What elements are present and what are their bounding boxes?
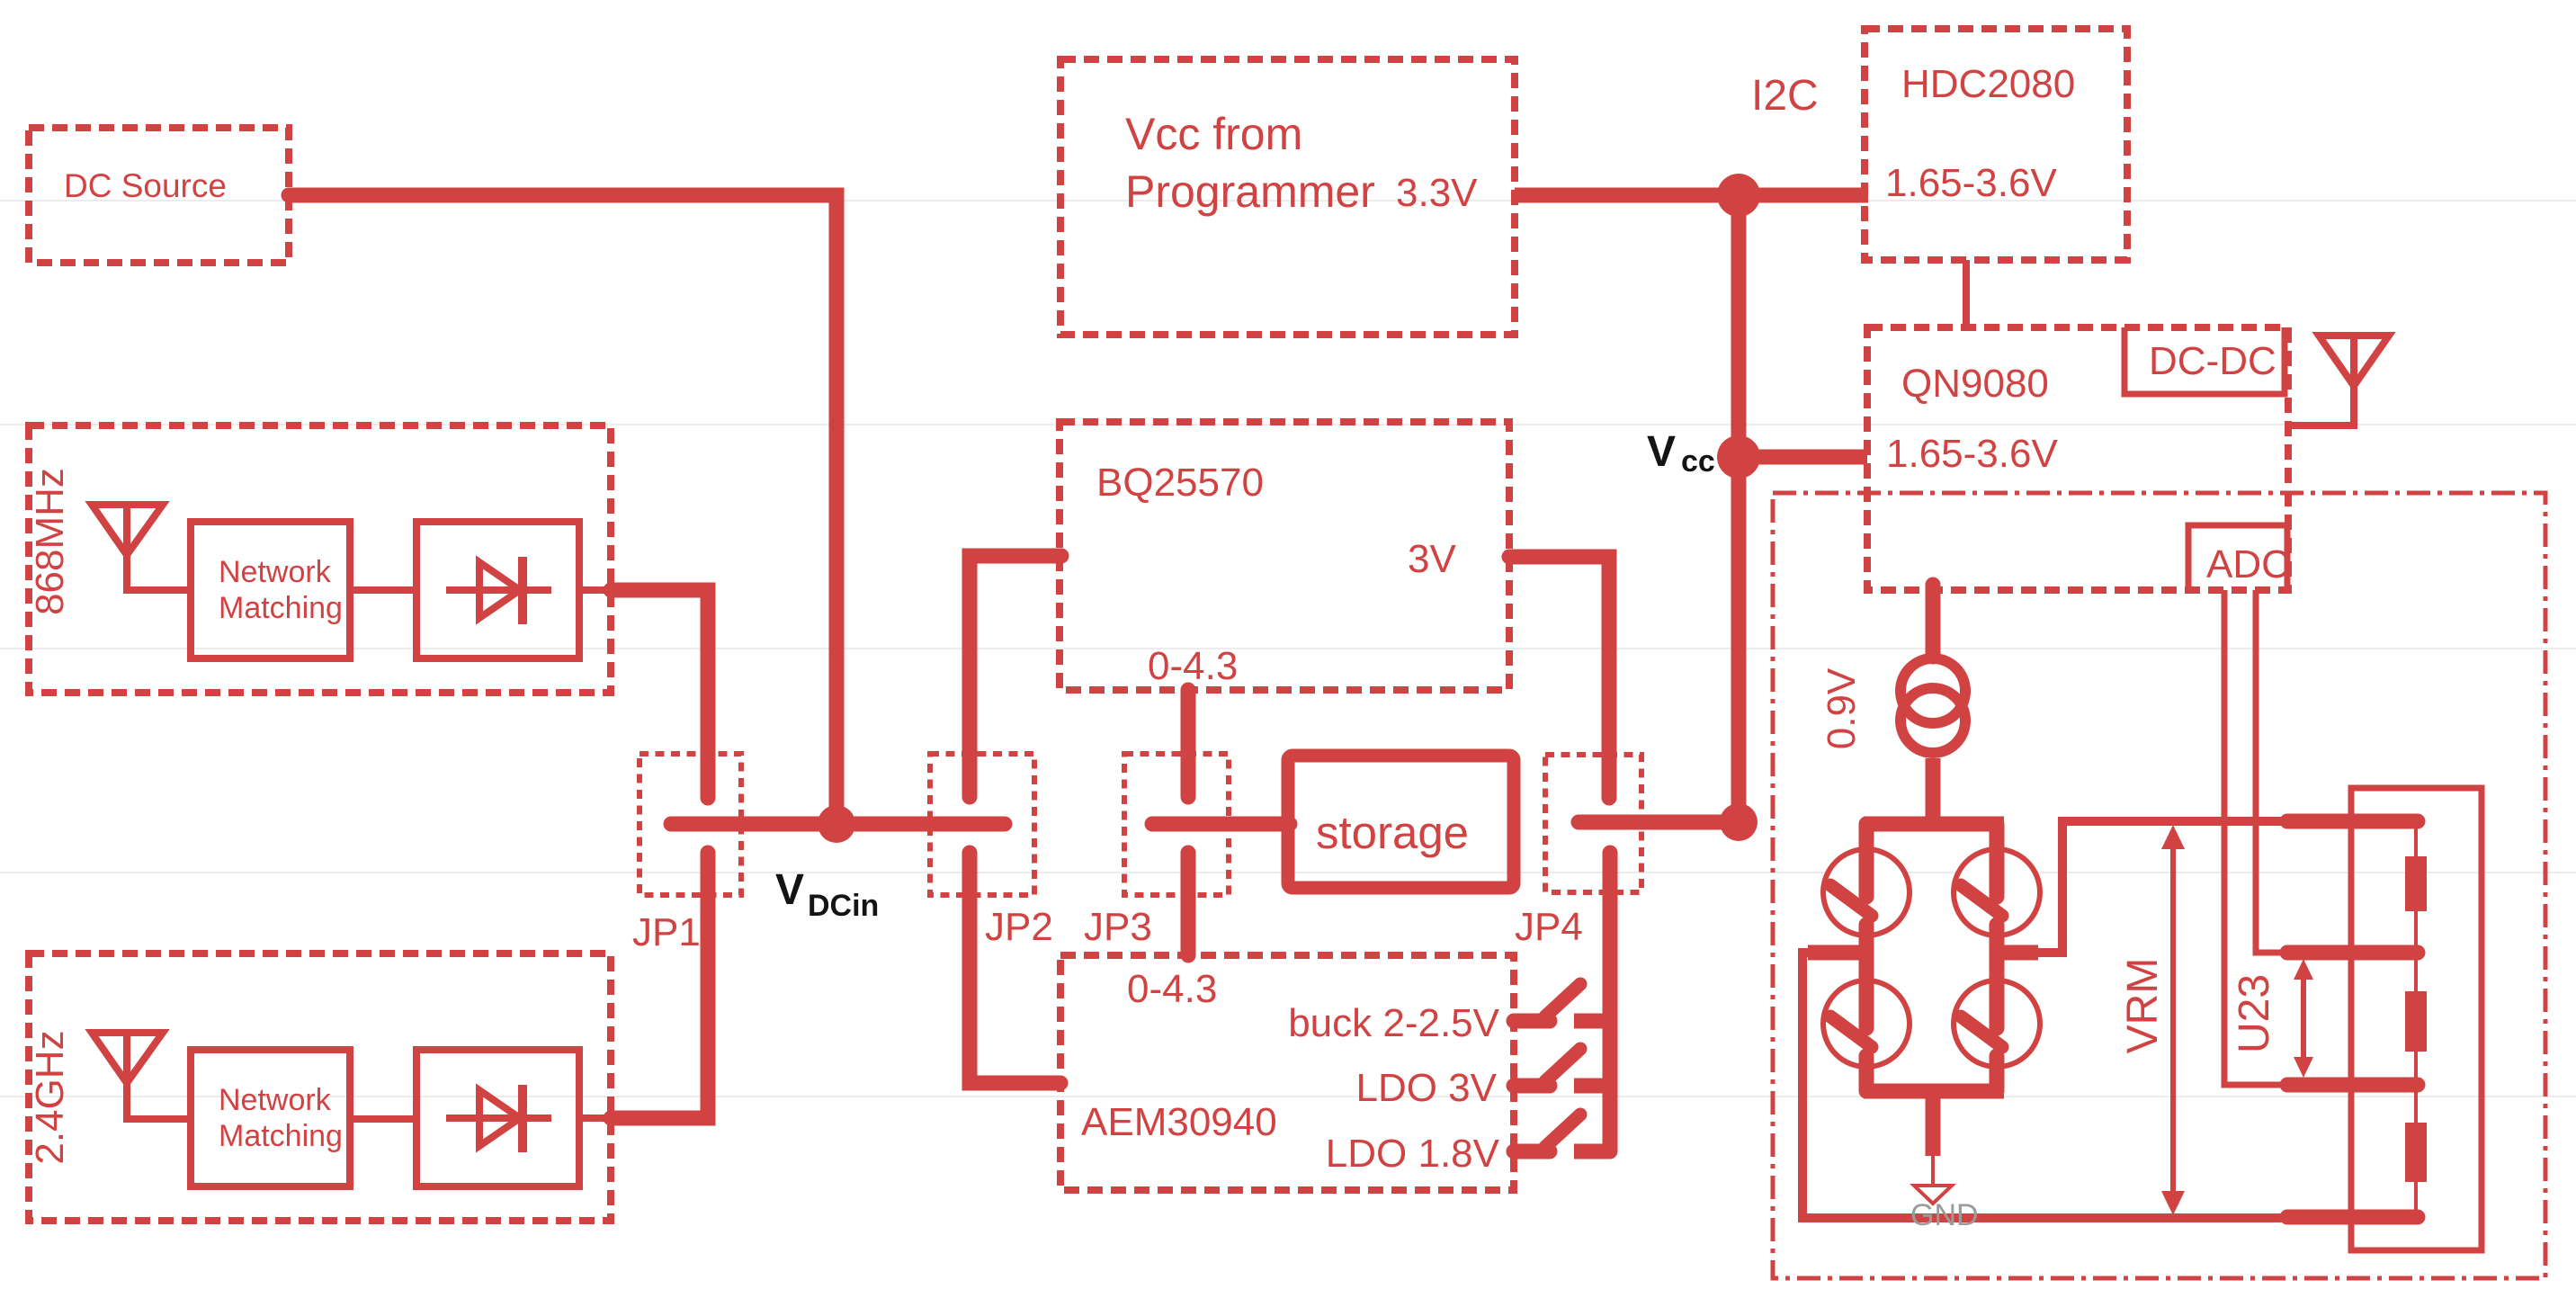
BQ25570 block xyxy=(1060,422,1509,690)
bridge right branch wires xyxy=(1990,824,2005,1091)
svg-text:DC-DC: DC-DC xyxy=(2149,339,2276,383)
svg-text:Matching: Matching xyxy=(219,1119,343,1153)
current source 0.9V xyxy=(1820,658,1965,753)
wire BQ25570 vin to JP2 top xyxy=(970,556,1061,797)
svg-text:JP4: JP4 xyxy=(1515,905,1583,949)
rectifier diode block 868MHz xyxy=(416,522,579,658)
svg-text:U23: U23 xyxy=(2231,974,2278,1053)
svg-text:cc: cc xyxy=(1681,444,1715,479)
switch circle top-left xyxy=(1823,849,1910,936)
switch lever top-right xyxy=(1961,885,2002,916)
svg-text:AEM30940: AEM30940 xyxy=(1081,1100,1277,1144)
node Vcc label xyxy=(1647,428,1715,479)
wire JP3 to storage xyxy=(1152,817,1290,832)
background grid line 2 xyxy=(0,424,2576,425)
wire bridge right to resistor tap 1 xyxy=(1997,821,2298,953)
svg-text:V: V xyxy=(1647,428,1676,476)
svg-text:Vcc from: Vcc from xyxy=(1125,109,1302,159)
VRM measurement arrow xyxy=(2119,825,2185,1215)
svg-text:JP3: JP3 xyxy=(1084,905,1152,949)
wire rectifier 868MHz to JP1 top xyxy=(579,586,611,594)
svg-text:LDO 1.8V: LDO 1.8V xyxy=(1326,1132,1500,1176)
switch circle top-right xyxy=(1954,849,2040,936)
wire matching to rectifier 2.4GHz xyxy=(350,1115,416,1123)
antenna 868MHz xyxy=(92,505,191,590)
bridge left branch wires xyxy=(1859,824,1874,1091)
wire JP4 bottom switch bus xyxy=(1603,853,1618,1151)
VRM dash-dot boundary box xyxy=(1773,493,2545,1278)
background grid line 1 xyxy=(0,200,2576,201)
switch circle bottom-right xyxy=(1954,980,2040,1067)
svg-text:ADC: ADC xyxy=(2206,542,2290,586)
wire BQ25570 3V to JP4 top xyxy=(1509,557,1609,798)
switch bridge bottom bar xyxy=(1864,1084,2004,1099)
wire Vcc to QN9080 xyxy=(1739,450,1867,465)
switch LDO 3V xyxy=(1514,1049,1617,1086)
svg-text:V: V xyxy=(775,866,804,914)
Vcc from programmer block xyxy=(1060,59,1515,335)
switch buck 2-2.5V xyxy=(1514,984,1617,1021)
ADC tab xyxy=(2188,525,2290,592)
storage block xyxy=(1288,756,1514,888)
wire JP3 bottom to AEM30940 0-4.3 xyxy=(1181,853,1196,955)
AEM30940 block xyxy=(1060,955,1514,1190)
rectifier diode block 2.4GHz xyxy=(416,1050,579,1186)
wire rectifier 2.4GHz to JP1 bottom xyxy=(579,1115,611,1122)
wire VDCin to JP2 xyxy=(836,817,1005,832)
svg-text:LDO 3V: LDO 3V xyxy=(1355,1066,1497,1110)
node VDCin label xyxy=(775,866,879,923)
wire bridge bottom to GND xyxy=(1926,1091,1941,1156)
resistor R3 xyxy=(2405,1123,2427,1182)
svg-text:0.9V: 0.9V xyxy=(1820,667,1864,749)
svg-text:DC Source: DC Source xyxy=(64,167,227,204)
jumper JP2 xyxy=(930,754,1053,949)
background grid line 4 xyxy=(0,872,2576,873)
svg-text:JP1: JP1 xyxy=(632,910,701,954)
resistor R2 xyxy=(2405,991,2427,1052)
bridge mid-left tap bar xyxy=(1808,945,1867,961)
wire matching to rectifier 868MHz xyxy=(350,586,416,594)
svg-text:DCin: DCin xyxy=(808,889,879,923)
jumper JP1 xyxy=(632,754,836,954)
resistor ladder tap 4 xyxy=(2287,1210,2418,1225)
wire bridge left to GND return xyxy=(1802,953,2298,1218)
svg-text:I2C: I2C xyxy=(1751,72,1819,120)
wire 3.3V to HDC2080 xyxy=(1515,188,1868,203)
bridge mid-right tap bar xyxy=(1997,945,2038,961)
868MHz harvester block xyxy=(28,425,611,693)
svg-text:QN9080: QN9080 xyxy=(1901,362,2049,406)
svg-text:VRM: VRM xyxy=(2119,958,2167,1054)
background grid line 5 xyxy=(0,1096,2576,1097)
resistor ladder tap 1 xyxy=(2287,814,2418,829)
svg-text:2.4GHz: 2.4GHz xyxy=(28,1030,72,1164)
svg-text:GND: GND xyxy=(1910,1198,1979,1232)
svg-text:Programmer: Programmer xyxy=(1125,166,1375,217)
node Vcc top junction dot xyxy=(1717,174,1760,217)
svg-text:BQ25570: BQ25570 xyxy=(1096,461,1264,505)
svg-text:3V: 3V xyxy=(1408,537,1456,581)
resistor network loop U23 xyxy=(2351,788,2482,1250)
node Vcc bottom junction dot xyxy=(1720,803,1758,841)
network matching block 2.4GHz xyxy=(191,1050,350,1186)
HDC2080 block xyxy=(1865,29,2127,260)
svg-text:Network: Network xyxy=(219,1083,332,1117)
jumper JP4 xyxy=(1515,755,1739,949)
wire ADC channel 2 to tap 2 xyxy=(2256,590,2285,953)
svg-text:868MHz: 868MHz xyxy=(28,468,72,615)
U23 measurement arrow xyxy=(2231,959,2313,1078)
network matching block 868MHz xyxy=(191,522,350,658)
wire current source to bridge xyxy=(1926,758,1941,824)
svg-text:HDC2080: HDC2080 xyxy=(1901,62,2075,106)
svg-text:storage: storage xyxy=(1316,807,1469,858)
wire ADC channel 1 to tap 3 xyxy=(2224,590,2285,1085)
antenna 2.4GHz xyxy=(92,1033,191,1119)
svg-text:Matching: Matching xyxy=(219,591,343,625)
resistor chain wire xyxy=(2414,821,2418,1217)
wire DC source to VDCin node xyxy=(289,195,836,810)
switch bridge top bar xyxy=(1864,817,2004,832)
switch circle bottom-left xyxy=(1823,980,1910,1067)
resistor ladder tap 3 xyxy=(2287,1078,2418,1093)
switch lever bottom-right xyxy=(1961,1016,2002,1047)
svg-text:0-4.3: 0-4.3 xyxy=(1127,967,1217,1011)
svg-text:1.65-3.6V: 1.65-3.6V xyxy=(1885,161,2057,205)
svg-text:3.3V: 3.3V xyxy=(1396,171,1478,215)
wire HDC2080 to QN9080 xyxy=(1963,260,1970,327)
background grid line 3 xyxy=(0,648,2576,649)
svg-text:buck 2-2.5V: buck 2-2.5V xyxy=(1288,1001,1499,1045)
DC source block xyxy=(29,128,289,263)
wire BQ25570 0-4.3 pin to JP3 top xyxy=(1181,690,1196,797)
wire QN9080 to current source xyxy=(1926,585,1941,657)
svg-text:0-4.3: 0-4.3 xyxy=(1148,644,1238,688)
antenna QN9080 xyxy=(2288,336,2389,425)
node VDCin junction dot xyxy=(818,805,855,843)
svg-text:JP2: JP2 xyxy=(985,905,1053,949)
2.4GHz harvester block xyxy=(28,953,611,1221)
svg-text:Network: Network xyxy=(219,555,332,589)
switch lever bottom-left xyxy=(1830,1016,1872,1047)
node Vcc mid junction dot xyxy=(1717,435,1760,479)
wire JP2 bottom to AEM30940 xyxy=(970,853,1060,1083)
ground xyxy=(1910,1186,1979,1232)
wire Vcc vertical xyxy=(1731,195,1747,822)
QN9080 block xyxy=(1867,327,2288,590)
jumper JP3 xyxy=(1084,754,1229,949)
resistor R1 xyxy=(2405,856,2427,911)
resistor ladder tap 2 xyxy=(2287,945,2418,961)
switch lever top-left xyxy=(1830,885,1872,916)
switch LDO 1.8V xyxy=(1514,1115,1610,1151)
svg-text:1.65-3.6V: 1.65-3.6V xyxy=(1886,432,2058,476)
DC-DC tab xyxy=(2124,327,2285,394)
